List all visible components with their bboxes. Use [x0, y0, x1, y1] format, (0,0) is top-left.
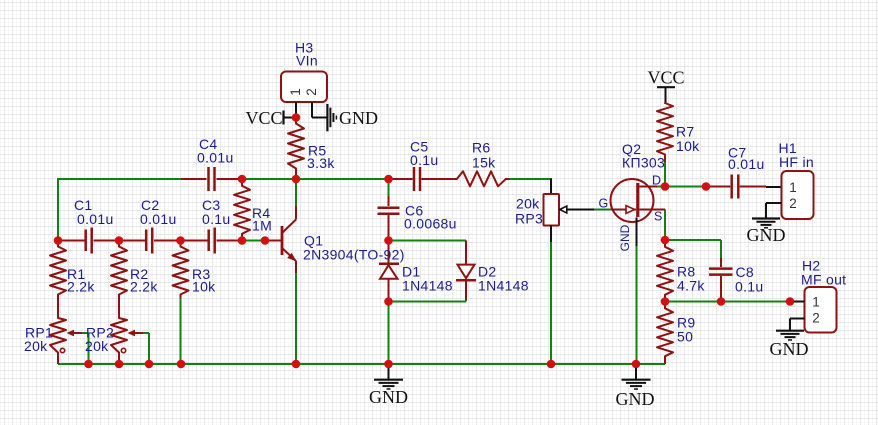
svg-text:0.1u: 0.1u	[202, 211, 230, 227]
svg-text:VCC: VCC	[647, 67, 684, 87]
svg-text:0.01u: 0.01u	[197, 150, 234, 166]
svg-text:GND: GND	[369, 387, 408, 407]
svg-text:1M: 1M	[252, 217, 272, 233]
svg-text:4.7k: 4.7k	[677, 277, 705, 293]
svg-text:15k: 15k	[472, 154, 496, 170]
svg-text:GND: GND	[747, 225, 786, 245]
svg-text:HF in: HF in	[779, 154, 814, 170]
svg-text:0.01u: 0.01u	[140, 211, 177, 227]
svg-text:1N4148: 1N4148	[402, 277, 453, 293]
svg-text:GND: GND	[770, 339, 809, 359]
svg-text:20k: 20k	[24, 338, 48, 354]
svg-text:10k: 10k	[192, 278, 216, 294]
svg-text:0.1u: 0.1u	[735, 279, 763, 295]
svg-text:2: 2	[789, 196, 797, 211]
svg-text:GND: GND	[339, 108, 378, 128]
svg-text:20k: 20k	[85, 338, 109, 354]
svg-text:1: 1	[288, 88, 303, 96]
svg-text:1: 1	[812, 294, 820, 309]
svg-text:GND: GND	[616, 389, 655, 409]
svg-text:2.2k: 2.2k	[130, 278, 158, 294]
svg-text:20k: 20k	[516, 195, 540, 211]
svg-text:D: D	[652, 174, 661, 188]
svg-text:0.1u: 0.1u	[410, 152, 438, 168]
svg-text:50: 50	[677, 328, 693, 344]
svg-text:КП303: КП303	[622, 154, 665, 170]
svg-text:VCC: VCC	[245, 108, 282, 128]
svg-text:0.01u: 0.01u	[728, 156, 765, 172]
svg-text:0.0068u: 0.0068u	[404, 215, 457, 231]
svg-text:1: 1	[789, 180, 797, 195]
svg-text:10k: 10k	[676, 138, 700, 154]
svg-text:R6: R6	[472, 140, 491, 156]
svg-text:2N3904(TO-92): 2N3904(TO-92)	[303, 247, 405, 263]
svg-text:RP3: RP3	[515, 210, 543, 226]
svg-text:2.2k: 2.2k	[67, 278, 95, 294]
svg-text:3.3k: 3.3k	[307, 155, 335, 171]
svg-text:VIn: VIn	[296, 52, 318, 68]
svg-text:1N4148: 1N4148	[478, 277, 529, 293]
svg-text:G: G	[599, 197, 609, 211]
svg-text:S: S	[654, 210, 662, 224]
svg-text:MF out: MF out	[801, 272, 846, 288]
svg-text:2: 2	[304, 88, 319, 96]
svg-text:GND: GND	[618, 224, 632, 251]
svg-text:0.01u: 0.01u	[77, 211, 114, 227]
svg-text:2: 2	[812, 310, 820, 325]
